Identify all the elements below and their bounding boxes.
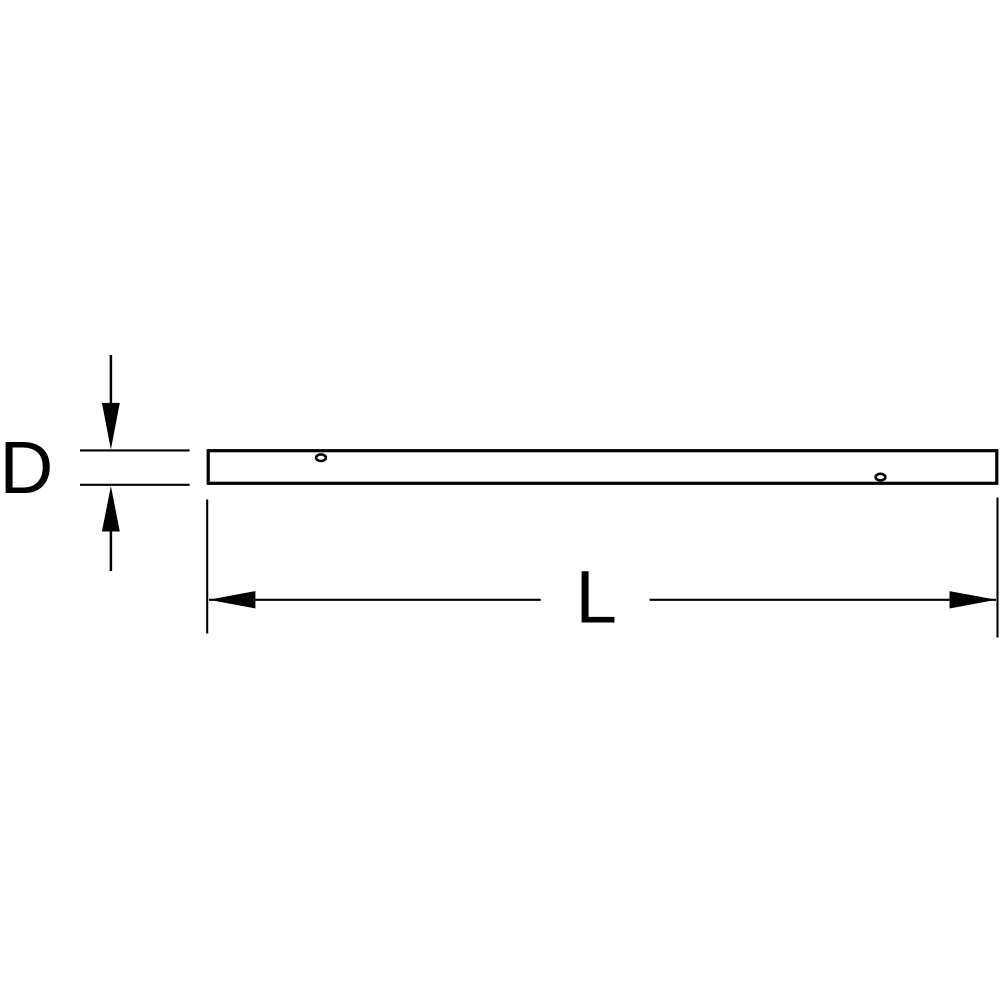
svg-text:L: L xyxy=(576,556,617,639)
svg-text:D: D xyxy=(0,426,53,509)
